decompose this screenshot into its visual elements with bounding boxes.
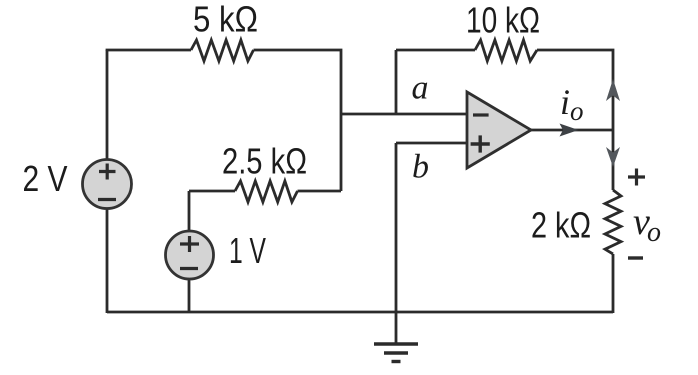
resistor R 2 kOhm vertical zigzag <box>605 190 621 254</box>
svg-text:i: i <box>560 82 570 122</box>
svg-text:o: o <box>570 96 584 126</box>
wire left vertical upper (to 2V source) <box>106 50 109 160</box>
svg-text:o: o <box>647 217 661 248</box>
wire 1V source top lead <box>188 191 191 232</box>
voltage source V1 2V circle <box>83 160 132 209</box>
wire left vertical lower (2V source to bottom) <box>106 208 109 313</box>
wire 1V source bottom lead <box>188 279 191 313</box>
wire right vertical to 2k resistor <box>612 130 615 190</box>
resistor R 10 kOhm zigzag <box>475 40 537 61</box>
wire 2.5k right lead <box>298 190 342 193</box>
wire 10k left lead <box>396 49 475 52</box>
resistor R 2.5 kOhm zigzag <box>235 181 298 202</box>
resistor R 5 kOhm zigzag <box>191 40 254 61</box>
wire node a horizontal <box>341 113 467 116</box>
wire op-amp output <box>531 129 613 132</box>
voltage source V2 1V circle <box>166 231 214 279</box>
wire 2.5k left lead <box>189 190 235 193</box>
current arrow up on right branch <box>606 79 620 101</box>
wire node b horizontal <box>396 142 467 145</box>
op-amp U1 triangle <box>467 92 531 168</box>
svg-text:a: a <box>412 70 429 107</box>
svg-text:b: b <box>412 149 429 186</box>
op-amp inverting input minus sign <box>473 113 489 116</box>
svg-text:2 V: 2 V <box>23 158 68 199</box>
current arrow io on output wire <box>560 124 579 137</box>
svg-text:5 kΩ: 5 kΩ <box>193 0 258 40</box>
ground <box>374 344 418 362</box>
wire 2k bottom lead <box>612 254 615 313</box>
op-amp non-inverting input plus sign <box>471 135 490 152</box>
minus sign for vo <box>628 256 643 259</box>
wire from 5k resistor to right corner <box>254 50 342 191</box>
svg-text:10 kΩ: 10 kΩ <box>466 0 540 41</box>
wire top-left lead of R 5k <box>107 50 191 51</box>
svg-text:1 V: 1 V <box>229 230 266 271</box>
svg-text:2 kΩ: 2 kΩ <box>531 205 591 246</box>
plus sign for vo <box>628 169 645 186</box>
svg-text:2.5 kΩ: 2.5 kΩ <box>222 141 307 182</box>
wire 10k right lead and right vertical down to output node <box>537 50 613 130</box>
wire node b vertical to ground <box>395 143 398 344</box>
wire feedback vertical riser <box>395 50 398 114</box>
wire bottom rail <box>107 311 613 314</box>
current arrow down on right branch <box>606 147 620 167</box>
